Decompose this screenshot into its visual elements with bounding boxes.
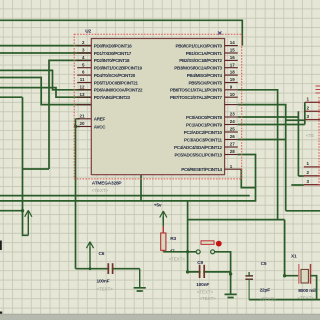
pin 16 PB2 bbox=[179, 55, 238, 63]
label X1 bbox=[291, 254, 297, 260]
node AVCC bbox=[74, 125, 77, 128]
node crystal bbox=[283, 274, 286, 277]
svg-text:PC3/ADC3/PCINT11: PC3/ADC3/PCINT11 bbox=[184, 137, 223, 142]
pin 15 PB1 bbox=[186, 48, 238, 56]
svg-text:19: 19 bbox=[230, 77, 236, 82]
value 47 bbox=[170, 249, 175, 255]
svg-text:100nF: 100nF bbox=[196, 282, 209, 288]
node junction left bbox=[21, 209, 24, 212]
svg-text:<TEXT>: <TEXT> bbox=[197, 290, 214, 295]
pin 24 PC1 bbox=[186, 119, 238, 127]
power terminal +5v bbox=[160, 211, 167, 226]
svg-text:PD4/T0/XCK/PCINT20: PD4/T0/XCK/PCINT20 bbox=[94, 73, 136, 78]
pin 27 PC4 bbox=[174, 142, 238, 150]
svg-text:PD6/AIN0/OC0A/PCINT22: PD6/AIN0/OC0A/PCINT22 bbox=[94, 88, 143, 93]
wire left loop bbox=[23, 168, 50, 170]
wire button to gnd bbox=[215, 252, 231, 294]
svg-text:PD3/INT1/OC2B/PCINT19: PD3/INT1/OC2B/PCINT19 bbox=[94, 66, 143, 71]
svg-text:15: 15 bbox=[230, 48, 236, 53]
svg-text:R3: R3 bbox=[170, 236, 176, 242]
pin 12 PD6 bbox=[77, 84, 143, 92]
wire to left vertical top bbox=[0, 96, 23, 98]
svg-text:PC1/ADC1/PCINT9: PC1/ADC1/PCINT9 bbox=[186, 122, 223, 127]
ground C6 bbox=[134, 269, 146, 291]
node C6 arrow bbox=[89, 267, 92, 270]
pin stub right lower bbox=[225, 104, 238, 106]
chip U2 body bbox=[91, 39, 224, 175]
label C6 bbox=[99, 251, 105, 257]
wire conn links bbox=[286, 102, 305, 185]
connector J1 pin 1 bbox=[305, 97, 320, 103]
node C9 right bbox=[229, 272, 232, 275]
svg-text:<TEXT>: <TEXT> bbox=[92, 188, 109, 193]
svg-text:27: 27 bbox=[230, 142, 236, 147]
svg-text:PC6/RESET/PCINT14: PC6/RESET/PCINT14 bbox=[181, 167, 222, 172]
svg-text:21: 21 bbox=[79, 113, 85, 118]
wire pc1 bbox=[238, 124, 305, 126]
svg-text:AREF: AREF bbox=[94, 117, 106, 122]
svg-text:C6: C6 bbox=[99, 251, 105, 257]
value 8000 bbox=[298, 288, 315, 294]
svg-text:13: 13 bbox=[79, 92, 85, 97]
svg-text:PB1/OC1A/PCINT1: PB1/OC1A/PCINT1 bbox=[186, 51, 223, 56]
svg-text:AVCC: AVCC bbox=[94, 124, 106, 129]
connector edge dashes bbox=[306, 86, 320, 187]
svg-text:X1: X1 bbox=[291, 254, 297, 260]
label +5v bbox=[154, 203, 162, 209]
wire to pin 4 bbox=[49, 60, 91, 169]
ground button bbox=[225, 294, 237, 297]
svg-text:ATMEGA328P: ATMEGA328P bbox=[92, 181, 123, 187]
svg-text:8000 mil: 8000 mil bbox=[298, 288, 315, 294]
svg-text:20: 20 bbox=[79, 121, 85, 126]
svg-text:C9: C9 bbox=[197, 260, 203, 266]
pin 6 PD4 bbox=[77, 70, 136, 78]
svg-text:PD7/AIN1/PCINT23: PD7/AIN1/PCINT23 bbox=[94, 95, 131, 100]
pin 18 PB4 bbox=[187, 70, 238, 78]
wire to pin 2 bbox=[0, 45, 91, 47]
wire pin9 xtal bbox=[238, 90, 278, 220]
capacitor C6 bbox=[108, 263, 112, 274]
svg-text:22pF: 22pF bbox=[260, 288, 271, 294]
capacitor C9 bbox=[200, 265, 205, 278]
svg-text:23: 23 bbox=[230, 112, 236, 117]
pin 28 PC5 bbox=[175, 149, 238, 157]
wire reset node bbox=[163, 251, 196, 253]
text placeholder C6 bbox=[97, 287, 114, 292]
svg-text:C5: C5 bbox=[261, 261, 267, 267]
pin stub left lower bbox=[77, 104, 91, 106]
pin 23 PC0 bbox=[186, 112, 238, 120]
connector J2 pin 1 bbox=[304, 161, 320, 167]
capacitor C5 bbox=[245, 272, 253, 300]
wire crystal right bbox=[311, 276, 317, 300]
node reset bbox=[186, 250, 189, 253]
pin 17 PB3 bbox=[174, 62, 238, 70]
wire crystal vertical bbox=[285, 220, 299, 276]
svg-text:11: 11 bbox=[80, 77, 85, 82]
wire pc0 bbox=[238, 116, 299, 118]
svg-text:<TEXT>: <TEXT> bbox=[169, 257, 186, 262]
label C9 bbox=[197, 260, 203, 266]
value 100nF C9 bbox=[196, 282, 209, 288]
svg-text:PD5/T1/OC0B/PCINT21: PD5/T1/OC0B/PCINT21 bbox=[94, 80, 139, 85]
label R3 bbox=[170, 236, 176, 242]
push button bbox=[196, 241, 222, 254]
connector J1 pin 3 bbox=[305, 114, 320, 120]
pin 11 PD5 bbox=[77, 77, 138, 85]
pin 25 PC2 bbox=[184, 127, 238, 135]
svg-text:<TEXT>: <TEXT> bbox=[200, 296, 217, 301]
pin 21 AREF bbox=[77, 113, 105, 121]
svg-text:PB3/MOSI/OC2A/PCINT3: PB3/MOSI/OC2A/PCINT3 bbox=[174, 66, 222, 71]
wire to lower stub bbox=[0, 78, 91, 105]
wire ground bus bottom bbox=[249, 299, 320, 301]
svg-text:PB5/SCK/PCINT5: PB5/SCK/PCINT5 bbox=[189, 80, 223, 85]
wire pin13 feed bbox=[0, 88, 91, 98]
resistor R3 bbox=[161, 226, 166, 252]
text placeholder C9 bbox=[197, 290, 214, 295]
wire C6 horizontal bbox=[76, 268, 140, 270]
pin 2 PD0 bbox=[77, 40, 132, 48]
wire pc5 bbox=[238, 155, 256, 188]
power terminal C6 bbox=[86, 242, 93, 269]
svg-text:10: 10 bbox=[230, 92, 236, 97]
label ATMEGA328P bbox=[92, 181, 123, 187]
svg-text:+5v: +5v bbox=[154, 203, 162, 209]
wire reset cross bbox=[188, 219, 285, 221]
wire pc3 bbox=[238, 139, 286, 141]
svg-text:U2: U2 bbox=[85, 29, 91, 35]
text placeholder R3 bbox=[169, 257, 186, 262]
svg-text:28: 28 bbox=[230, 149, 236, 154]
wire AVCC stub bbox=[76, 126, 81, 128]
pin 5 PD3 bbox=[77, 62, 142, 70]
svg-text:PC4/ADC4/SDA/PCINT12: PC4/ADC4/SDA/PCINT12 bbox=[174, 145, 223, 150]
text placeholder button bbox=[200, 296, 217, 301]
text placeholder chip bbox=[92, 188, 109, 193]
svg-text:<TE: <TE bbox=[306, 133, 314, 138]
selection box chip bbox=[74, 34, 242, 179]
svg-text:<TEXT>: <TEXT> bbox=[260, 297, 277, 302]
wire pin10 xtal bbox=[238, 105, 320, 211]
svg-text:100nF: 100nF bbox=[97, 279, 110, 285]
svg-text:<TEXT>: <TEXT> bbox=[97, 287, 114, 292]
crystal X1 bbox=[299, 264, 311, 284]
connector J2 pin 3 bbox=[304, 179, 320, 185]
svg-text:24: 24 bbox=[230, 119, 236, 124]
svg-text:26: 26 bbox=[230, 134, 236, 139]
wire reset vertical bbox=[187, 201, 189, 272]
svg-text:18: 18 bbox=[230, 70, 236, 75]
node handle mark bbox=[218, 32, 222, 35]
svg-text:PB7/TOSC2/XTAL2/PCINT7: PB7/TOSC2/XTAL2/PCINT7 bbox=[170, 95, 223, 100]
pin 13 PD7 bbox=[77, 92, 130, 100]
svg-text:PC0/ADC0/PCINT8: PC0/ADC0/PCINT8 bbox=[186, 115, 223, 120]
pin 1 PC6 bbox=[181, 164, 241, 172]
power terminal left bbox=[25, 210, 32, 235]
pin 26 PC3 bbox=[184, 134, 238, 142]
rail ground left bbox=[0, 195, 250, 197]
text placeholder X1 bbox=[298, 296, 315, 301]
pin 3 PD1 bbox=[77, 48, 132, 56]
value 100nF bbox=[97, 279, 110, 285]
wire top rail bbox=[0, 20, 242, 45]
pin 20 AVCC bbox=[77, 121, 106, 129]
svg-text:PB2/SS/OC1B/PCINT2: PB2/SS/OC1B/PCINT2 bbox=[179, 58, 222, 63]
wire to pin 12 bbox=[0, 70, 91, 89]
svg-text:PD1/TXD0/PCINT17: PD1/TXD0/PCINT17 bbox=[94, 51, 132, 56]
edge mark left 1 bbox=[0, 241, 2, 251]
wire AREF vertical bbox=[75, 119, 77, 269]
svg-text:16: 16 bbox=[230, 55, 236, 60]
pin 9 PB6 bbox=[170, 84, 238, 92]
svg-text:PC2/ADC2/PCINT10: PC2/ADC2/PCINT10 bbox=[184, 130, 223, 135]
svg-text:PD2/INT0/PCINT18: PD2/INT0/PCINT18 bbox=[94, 58, 130, 63]
bottom bar bbox=[0, 314, 320, 320]
svg-text:PB6/TOSC1/XTAL1/PCINT6: PB6/TOSC1/XTAL1/PCINT6 bbox=[170, 88, 223, 93]
svg-text:PC5/ADC5/SCL/PCINT13: PC5/ADC5/SCL/PCINT13 bbox=[175, 152, 223, 157]
pin 19 PB5 bbox=[189, 77, 238, 85]
wire from left edge bbox=[0, 210, 23, 212]
edge mark left 2 bbox=[0, 312, 2, 319]
pin 14 PB0 bbox=[176, 40, 238, 48]
connector J1 pin 2 bbox=[305, 106, 320, 112]
svg-text:PD0/RXD0/PCINT16: PD0/RXD0/PCINT16 bbox=[94, 43, 133, 48]
wire C9 horizontal bbox=[188, 271, 231, 273]
pin 4 PD2 bbox=[77, 55, 130, 63]
wire chip gnd down bbox=[140, 175, 142, 201]
svg-text:25: 25 bbox=[230, 127, 236, 132]
svg-text:14: 14 bbox=[230, 40, 236, 45]
svg-text:PB4/MISO/PCINT4: PB4/MISO/PCINT4 bbox=[187, 73, 223, 78]
connector J2 pin 2 bbox=[304, 170, 320, 176]
rail reset left bbox=[0, 169, 256, 201]
label U2 bbox=[85, 29, 91, 35]
text placeholder C5 bbox=[260, 297, 277, 302]
node C9 left bbox=[186, 270, 189, 273]
value 22pF bbox=[260, 288, 271, 294]
label C5 bbox=[261, 261, 267, 267]
wire AREF stub bbox=[76, 118, 81, 120]
wire left vertical bbox=[23, 97, 29, 235]
wire to pin 3 bbox=[0, 52, 91, 54]
svg-text:17: 17 bbox=[230, 62, 236, 67]
pin 10 PB7 bbox=[170, 92, 238, 100]
svg-text:PB0/ICP1/CLKO/PCINT0: PB0/ICP1/CLKO/PCINT0 bbox=[176, 43, 223, 48]
svg-text:12: 12 bbox=[79, 84, 85, 89]
